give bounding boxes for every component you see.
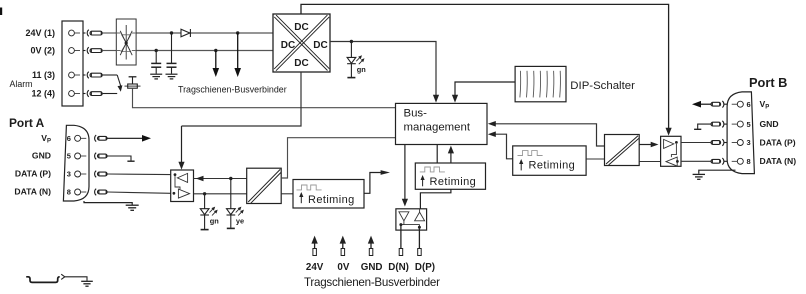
wire: DC/DC top to port B optocoupler (long top run) [301,4,669,129]
page edge mark [0,8,2,16]
Retiming 3 waveform glyph [518,151,543,156]
svg-text:0V (2): 0V (2) [30,45,55,55]
wire: DC/DC right to Bus-management [330,42,439,103]
svg-text:Bus-: Bus- [404,108,428,120]
chassis ground tick (pin5) [108,156,135,161]
surge suppressor F1 [116,19,136,65]
svg-text:GND: GND [32,151,51,161]
pin 8 (B) [732,158,744,164]
Retiming 2 up arrow [421,175,425,186]
pin 6 [75,135,87,141]
wire optocoupler B to DATA(P) (B) [681,142,711,144]
svg-text:0V: 0V [337,262,349,273]
Retiming 1 waveform glyph [297,185,322,190]
svg-text:11 (3): 11 (3) [32,70,55,80]
relay coil K1 [125,77,141,88]
capacitor C2 (24V to earth) [167,33,177,74]
arrow pin 0V (bottom) [340,236,346,249]
svg-text:Port B: Port B [749,75,787,90]
svg-text:12 (4): 12 (4) [31,88,55,98]
node: 0V junction for rail arrow [214,49,217,52]
wire: isolation T2 to optocoupler B with arrow [639,142,658,148]
dual optocoupler U3 [396,209,427,230]
pin 8 [75,189,87,195]
pin terminal D(P) [418,249,422,256]
wire: upper right into Bus-management (from port B side) [488,121,605,146]
svg-text:Alarm: Alarm [10,79,33,89]
wire: relay coil to Bus-management [133,88,396,108]
wire: dual optocoupler to D(N) pin [400,226,402,249]
svg-text:D(N): D(N) [388,262,409,273]
arrow VP out (B, pointing left) [692,101,711,108]
DIP switch strokes [520,71,561,98]
terminal block X1 [62,21,83,106]
LED gn emission arrows [210,207,218,216]
arrow pin 24V (bottom) [311,236,317,249]
svg-text:DATA (N): DATA (N) [760,156,797,166]
node: 24V junction for capacitor [170,31,173,34]
ground (earth) port B shell [693,174,705,179]
wire: DC/DC bottom to optocoupler A [182,72,302,126]
svg-text:GND: GND [760,119,779,129]
plug contact row 4 [83,90,102,97]
wire: isolation T1 to Bus-management [281,138,395,178]
isolation barrier T2 (port B) [605,135,640,166]
diode V1 [181,29,190,37]
plug port A pin 3 [95,171,108,178]
wire: optoA upper to isolation, with left arrow [194,176,247,182]
optocoupler U1 (port A) [171,170,194,202]
svg-text:D(P): D(P) [415,262,435,273]
svg-text:DC: DC [294,58,308,69]
ground (earth) for C1 [150,74,162,79]
Retiming 1 up arrow [299,192,303,203]
svg-text:6: 6 [67,134,71,143]
wire: Retiming 2 up into Bus-management [448,146,454,163]
plug contact row 3 [83,72,102,79]
svg-text:ye: ye [236,216,244,225]
arrow VP out [108,135,152,142]
svg-text:3: 3 [747,138,751,147]
svg-text:DATA (N): DATA (N) [14,187,51,197]
svg-text:management: management [404,122,471,134]
node: ye LED junction [229,177,232,180]
svg-text:Port A: Port A [9,116,45,130]
arrow: 0V to rail connector [213,51,220,78]
svg-text:DATA (P): DATA (P) [15,169,51,179]
isolation barrier T1 (port A) [247,168,282,203]
node: gn LED junction (top) [350,40,353,43]
wire: DIP-Schalter to Bus-management [452,82,515,103]
svg-text:DATA (P): DATA (P) [760,137,796,147]
wire DATA(N) to optocoupler A [108,192,171,193]
plug port B pin 3 [711,139,727,146]
LED ye emission arrows [236,207,244,216]
svg-text:GND: GND [361,262,383,273]
svg-text:5: 5 [747,120,751,129]
arrow into optocoupler U1 (from DC/DC) [178,126,184,170]
wire: Retiming 1 output arrow [364,170,390,193]
arrow: 24V to rail connector [234,33,241,77]
shield pictogram (bottom left) [26,277,60,283]
DIP-Schalter box [515,66,566,101]
pin terminal GND [369,249,373,256]
pin 6 (B) [732,101,744,107]
arrow into optocoupler U4 (port B) [666,128,672,136]
svg-text:gn: gn [357,65,367,74]
svg-text:24V: 24V [306,262,324,273]
ground (earth) for C2 [166,74,178,79]
pin terminal 0V [341,249,345,256]
optocoupler U4 (port B) [661,136,681,166]
wire: Bus-management down to dual optocoupler [402,145,408,207]
wire 0V rail [103,50,273,52]
wire DATA(P) to optocoupler A [108,173,171,176]
plug port A pin 6 [95,135,108,142]
svg-text:DC: DC [281,40,295,51]
svg-text:8: 8 [747,157,751,166]
shield connector mark [61,274,65,279]
svg-text:Tragschienen-Busverbinder: Tragschienen-Busverbinder [178,84,287,94]
connector X2 (D-sub port A) [63,125,89,201]
plug port B pin 8 [711,158,727,165]
Retiming 1 box [293,180,364,209]
node: gn LED junction [203,192,206,195]
optocoupler U4 internals [664,139,679,166]
wire: Retiming 3 to isolation T2 [586,158,604,160]
Retiming 3 up arrow [519,159,523,170]
svg-text:5: 5 [67,152,71,161]
wire: isolation T2 lower to optocoupler B [639,161,660,163]
plug port A pin 8 [95,189,108,196]
LED ye (port A) [227,179,236,229]
pin 3 (B) [732,140,744,146]
pin 5 (B) [732,121,744,127]
arrow pin GND (bottom) [368,236,374,249]
LED gn (port A) [200,194,209,230]
pin 3 [75,171,87,177]
Retiming 2 waveform glyph [420,167,445,172]
wire: isolation T1 to Retiming 1 [281,193,293,195]
wire 24V rail [103,32,273,34]
svg-text:3: 3 [67,170,71,179]
ground (earth) port A shell [126,205,139,210]
dual optocoupler U3 internals [399,209,425,229]
node: 0V junction for capacitor [155,49,158,52]
svg-text:gn: gn [210,216,220,225]
terminal pin 4 (12, alarm) [69,91,80,97]
wire: optoA lower to isolation [194,193,247,195]
Retiming 2 box [415,163,485,189]
terminal pin 2 (0V) [69,48,80,54]
chassis ground tick (pin5 B) [694,124,711,129]
terminal pin 3 (11, alarm) [69,72,80,78]
ground (earth) shield [81,281,93,286]
Bus-management box [396,103,488,144]
pin terminal 24V [313,249,317,256]
svg-text:DC: DC [294,22,308,33]
connector X3 (D-sub port B) [727,92,754,174]
svg-text:Retiming: Retiming [430,176,477,188]
wire connector shell A to earth [84,201,132,205]
svg-text:24V (1): 24V (1) [25,28,55,38]
svg-text:Tragschienen-Busverbinder: Tragschienen-Busverbinder [304,276,440,289]
svg-text:DIP-Schalter: DIP-Schalter [570,80,635,92]
plug port B pin 6 [711,101,727,108]
optocoupler U1 internals [173,173,190,198]
pin 5 [75,153,87,159]
wire connector shell B to earth [699,170,736,174]
wire shield to earth [65,277,87,281]
wire optocoupler B to DATA(N) (B) [681,160,711,162]
svg-text:8: 8 [67,188,71,197]
svg-text:Retiming: Retiming [529,159,576,171]
svg-text:DC: DC [313,40,327,51]
wire: Retiming 3 into Bus-management [488,131,513,158]
LED gn (power) emission arrows [356,55,364,64]
relay contact (alarm) [103,75,123,94]
Retiming 3 box [513,146,586,175]
plug contact row 1 [83,30,102,37]
plug port B pin 5 [711,121,727,128]
pin terminal D(N) [399,249,403,256]
DC/DC converter U2 [273,14,330,72]
wire: Bus-management down into Retiming 2 [436,145,438,164]
plug contact row 2 [83,47,102,54]
node: 24V junction for rail arrow [236,31,239,34]
LED gn (power) [347,42,356,78]
capacitor C1 (0V to earth) [151,51,161,74]
wire: Retiming 2 bottom to dual optocoupler [420,189,451,209]
svg-text:6: 6 [747,100,751,109]
svg-text:Retiming: Retiming [308,194,355,206]
plug port A pin 5 [95,153,108,160]
wire: dual optocoupler to D(P) pin [418,229,420,249]
terminal pin 1 (24V) [69,30,80,36]
